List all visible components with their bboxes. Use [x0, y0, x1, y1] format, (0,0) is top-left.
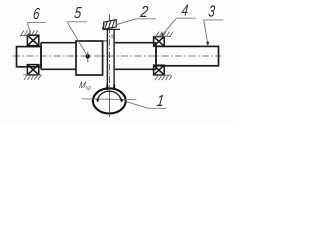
- key reference dot: [86, 54, 90, 58]
- support hatching top-left: [20, 30, 39, 35]
- pulley horizontal axis: [82, 98, 137, 101]
- support hatching bottom-right: [154, 75, 172, 80]
- bearing 4 top square: [154, 37, 165, 47]
- label 6: [27, 4, 46, 36]
- pulley vertical axis: [109, 14, 111, 88]
- bearing 6 bottom square: [27, 65, 38, 75]
- bearing 4 bottom square: [154, 65, 165, 75]
- label 4: [161, 1, 195, 37]
- support hatching top-right: [154, 32, 173, 37]
- key vertical tick: [87, 52, 89, 63]
- label 3: [204, 2, 224, 46]
- bearing 6 top square: [27, 35, 38, 45]
- support hatching bottom-left: [23, 75, 42, 80]
- gear hub block 5: [76, 41, 103, 75]
- centerline shaft axis: [13, 55, 221, 57]
- shaft mid section right: [115, 43, 156, 70]
- torque arc arrow: [98, 91, 122, 101]
- leader label 5: [67, 23, 87, 57]
- gear rim hatched cap 2: [102, 20, 120, 30]
- hub top edge overshoot: [103, 40, 108, 42]
- shaft mid section left: [41, 43, 76, 70]
- label 2: [117, 4, 156, 25]
- label 1: [125, 93, 166, 111]
- pulley ellipse 1: [93, 88, 126, 113]
- shaft left end journal: [17, 47, 42, 67]
- label 5: [67, 4, 87, 22]
- svg-text:кр: кр: [85, 85, 91, 92]
- shaft right journal 3: [156, 46, 219, 65]
- belt web lines: [106, 29, 108, 89]
